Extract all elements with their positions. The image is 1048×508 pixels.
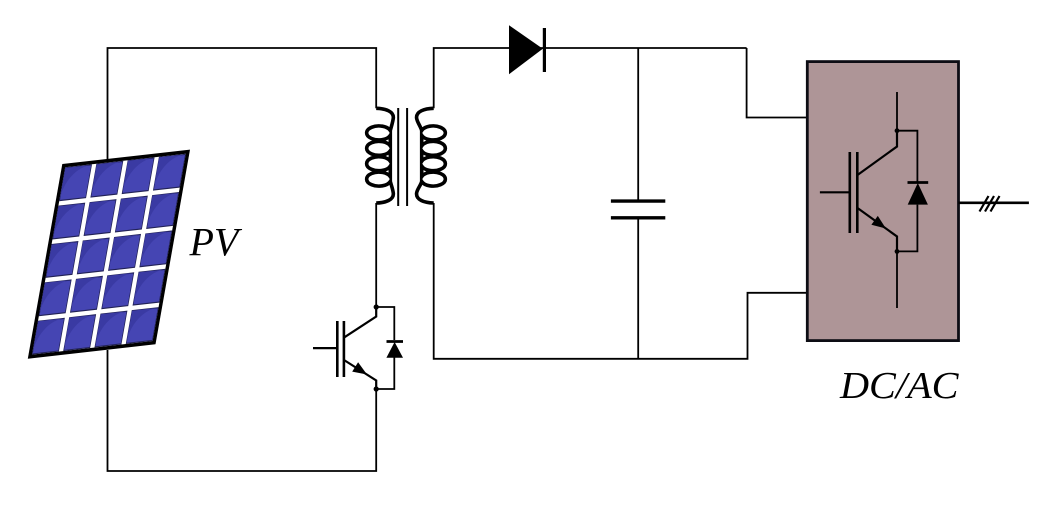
wire: transformer secondary bottom to output return — [434, 203, 806, 359]
node: Q1 collector junction — [374, 304, 379, 309]
wire: Q1 anti-parallel diode branch — [376, 307, 394, 389]
diode D3 (anti-parallel with Q2) — [908, 183, 929, 205]
wire: PV positive to transformer primary top — [108, 48, 377, 160]
three-phase slash marks — [980, 196, 1000, 212]
wire: inner IGBT collector feed — [896, 92, 898, 131]
IGBT Q2 gate bar — [848, 152, 851, 233]
IGBT Q1 emitter lead — [344, 360, 376, 389]
node: Q2 collector junction — [895, 128, 900, 133]
capacitor C1 — [611, 201, 665, 218]
wire: upper DC link into DC/AC block — [747, 48, 806, 118]
wire: capacitor bottom lead — [637, 220, 639, 359]
node: Q2 emitter junction — [895, 249, 900, 254]
DC/AC converter block U1 — [807, 62, 958, 341]
transformer T1 secondary winding — [417, 108, 446, 203]
diode D1 — [509, 25, 544, 74]
wire: inner IGBT emitter tail — [896, 251, 898, 308]
IGBT Q2 body bar — [856, 152, 859, 233]
svg-text:PV: PV — [189, 220, 243, 265]
wire: AC output with three-phase marks — [959, 202, 1029, 205]
IGBT Q1 gate lead — [313, 347, 336, 349]
IGBT Q1 emitter arrow — [352, 362, 367, 374]
IGBT Q1 body bar — [343, 321, 346, 377]
IGBT Q1 collector lead — [344, 307, 376, 338]
label PV — [189, 220, 243, 265]
IGBT Q2 gate lead — [820, 191, 849, 193]
IGBT Q2 emitter lead — [858, 208, 898, 251]
wire: Q2 anti-parallel diode branch — [897, 131, 917, 252]
IGBT Q1 gate bar — [336, 321, 339, 377]
wire: PV negative bottom loop to Q1 emitter node — [108, 350, 377, 471]
svg-text:DC/AC: DC/AC — [839, 365, 959, 407]
IGBT Q2 collector lead — [858, 131, 898, 175]
transformer core — [398, 108, 407, 206]
node: Q1 emitter junction — [374, 386, 379, 391]
transformer T1 primary winding — [367, 108, 394, 203]
diode D2 (anti-parallel with Q1) — [386, 342, 403, 358]
wire: transformer secondary top to diode D1 and capacitor — [434, 48, 747, 108]
solar panel PV — [28, 150, 190, 359]
wire: transformer primary bottom to Q1 collector node — [375, 203, 377, 307]
label DC/AC — [839, 365, 959, 407]
IGBT Q2 emitter arrow — [871, 216, 886, 229]
wire: capacitor top lead — [637, 48, 639, 200]
